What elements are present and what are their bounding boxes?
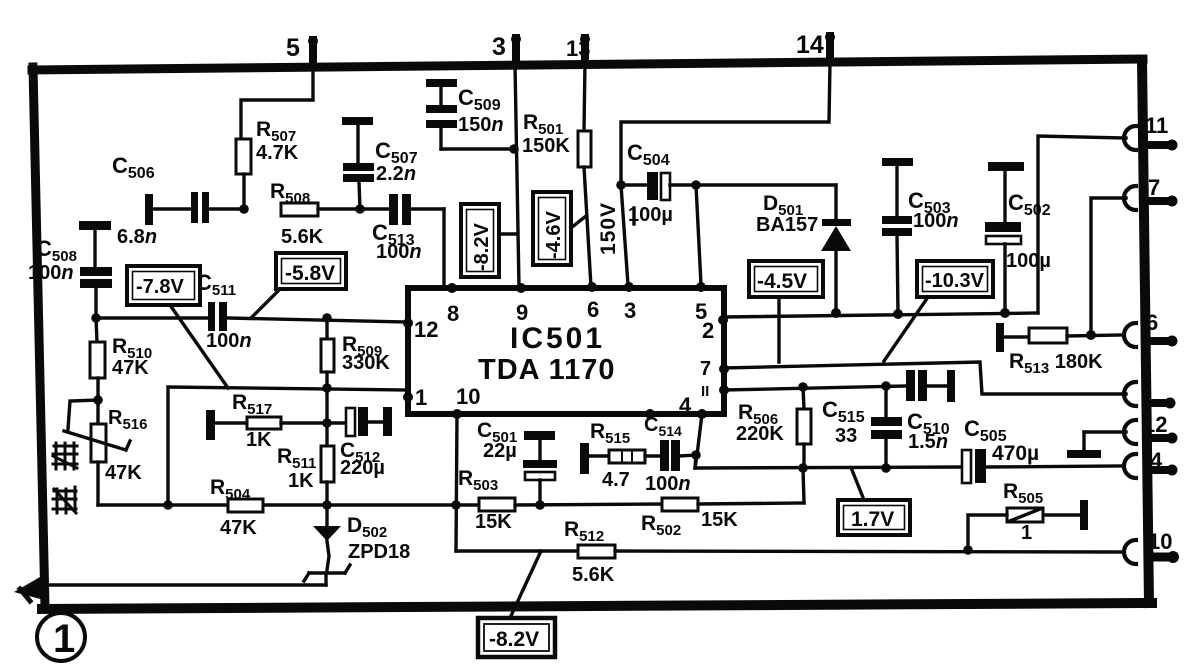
resistor R513 <box>996 323 1122 377</box>
svg-text:3: 3 <box>492 33 506 61</box>
capacitor C511 <box>196 270 252 352</box>
svg-text:15K: 15K <box>475 511 512 533</box>
resistor R515 <box>580 420 645 491</box>
node: junction R507/C506/R508 <box>239 204 249 214</box>
ground (pin 12) <box>1067 432 1101 458</box>
resistor R511 <box>277 388 334 505</box>
svg-text:BA157: BA157 <box>756 214 818 236</box>
svg-text:-8.2V: -8.2V <box>489 628 539 651</box>
capacitor C510 <box>906 370 955 453</box>
svg-text:1K: 1K <box>246 429 272 451</box>
node: C502 on rail <box>1000 308 1010 318</box>
capacitor C513 <box>372 194 444 263</box>
svg-text:ZPD18: ZPD18 <box>348 541 410 563</box>
svg-text:22µ: 22µ <box>483 440 517 462</box>
connector pin 11 <box>1124 113 1178 151</box>
capacitor C514 <box>644 414 696 495</box>
node: C501 on R503 row <box>535 500 545 510</box>
svg-text:-5.8V: -5.8V <box>285 262 335 285</box>
svg-text:1: 1 <box>53 617 75 661</box>
wire: row to IC pin 12 (left part) <box>96 316 208 319</box>
pin 13 (top terminal) <box>566 34 590 62</box>
node: junction pin10 column on R503 row <box>451 500 461 510</box>
wire: outer frame right <box>1142 60 1149 603</box>
pin 3 <box>624 282 634 292</box>
connector pin 4 <box>1124 448 1178 478</box>
voltage label -4.5V <box>749 261 823 362</box>
pin 11 <box>719 385 729 395</box>
connector pin 12 <box>1124 412 1178 444</box>
voltage label -7.8V <box>127 266 228 388</box>
node: C515 bottom <box>881 463 891 473</box>
pin 6 <box>587 282 597 292</box>
pin 5 (top terminal) <box>286 34 318 66</box>
node: R510/R516 junction <box>93 395 103 405</box>
svg-text:12: 12 <box>1143 412 1167 437</box>
wire: C504 left down to IC pin 3 <box>621 185 628 285</box>
capacitor C508 <box>28 221 112 318</box>
node: pin7 wire on R513 <box>1086 330 1096 340</box>
node: R509 bottom on pin1 wire <box>322 383 332 393</box>
svg-text:-7.8V: -7.8V <box>136 276 184 298</box>
svg-text:10: 10 <box>1148 529 1172 554</box>
svg-text:1K: 1K <box>288 470 314 492</box>
svg-text:2: 2 <box>702 318 714 343</box>
wire: C514 junction up to IC pin 4 (already drawn), down link <box>695 455 696 468</box>
svg-text:IC501: IC501 <box>510 322 605 355</box>
resistor R510 <box>90 318 152 400</box>
svg-text:3: 3 <box>624 298 636 323</box>
svg-text:100n: 100n <box>645 473 691 495</box>
svg-text:4: 4 <box>1150 448 1163 473</box>
wire: rail pin2 to pin11 connector wire <box>723 313 1038 317</box>
wire: outer frame left <box>33 67 45 607</box>
node: C515 top <box>881 381 891 391</box>
pin 7 <box>719 364 729 374</box>
svg-text:R513 180K: R513 180K <box>1009 350 1103 377</box>
node: D501 on rail <box>831 308 841 318</box>
wire: pin7 connector wire <box>1091 198 1126 335</box>
wire: pin11 connector wire <box>1038 136 1126 313</box>
voltage label -5.8V <box>252 253 346 317</box>
svg-text:-4.5V: -4.5V <box>757 270 807 293</box>
svg-text:10: 10 <box>456 384 480 409</box>
svg-text:5: 5 <box>286 34 300 62</box>
pin 4 <box>697 409 707 419</box>
svg-text:7: 7 <box>1148 175 1160 200</box>
node: R506 top <box>798 382 808 392</box>
svg-text:47K: 47K <box>105 462 142 484</box>
svg-text:13: 13 <box>566 36 590 61</box>
resistor R502 <box>641 468 804 539</box>
wire: outer frame bottom <box>42 603 1152 609</box>
svg-text:2.2n: 2.2n <box>376 163 416 185</box>
svg-text:4.7K: 4.7K <box>256 142 299 164</box>
svg-text:14: 14 <box>796 31 824 59</box>
diode D501 BA157 <box>756 185 851 313</box>
svg-text:4: 4 <box>679 393 692 418</box>
pin 8 <box>447 283 457 293</box>
node: R506 bottom <box>798 463 808 473</box>
pin 12 <box>403 318 413 328</box>
wire: C513 down to IC pin 8 <box>444 209 452 287</box>
node: C514 right junction <box>691 450 701 460</box>
svg-text:100n: 100n <box>28 262 74 284</box>
capacitor C512 (electrolytic) <box>327 407 392 479</box>
capacitor C506 <box>112 153 244 248</box>
node: C503 on rail <box>893 309 903 319</box>
svg-text:-4.6V: -4.6V <box>543 211 565 259</box>
node: arrow at left frame <box>14 573 47 600</box>
op-amp IC501 TDA1170 (box) <box>403 282 729 419</box>
stray tick mark <box>632 208 635 224</box>
node: unused dot on bottom edge <box>645 409 655 419</box>
wire: IC pin4 down and right row to C505 <box>695 414 962 468</box>
svg-text:47K: 47K <box>112 357 149 379</box>
svg-text:5.6K: 5.6K <box>572 564 615 586</box>
svg-text:220K: 220K <box>736 423 784 445</box>
svg-text:220µ: 220µ <box>340 457 385 479</box>
node: C504 right junction <box>691 180 701 190</box>
wire: L-wire up to IC pin 1 <box>168 387 407 505</box>
pin 3 (top terminal) <box>492 33 521 64</box>
potentiometer R516 (rheostat) <box>64 400 147 505</box>
svg-text:11: 11 <box>1145 113 1168 138</box>
resistor R506 <box>736 387 811 468</box>
connector pin 10 <box>1124 529 1179 564</box>
node: page reference circled 1 <box>37 613 85 661</box>
wire: IC pin7 row to right connector <box>724 362 1126 394</box>
svg-text:-10.3V: -10.3V <box>925 270 985 292</box>
voltage label -4.6V (rotated, near pin 6) <box>533 192 586 265</box>
wire: R504 row <box>98 503 479 506</box>
net label 线性 (linearity, rotated hanzi) <box>53 443 77 513</box>
node: C504 left junction <box>616 180 626 190</box>
node: R517/R511/C512 junction <box>322 418 332 428</box>
resistor R507 <box>236 118 299 209</box>
pin 1 <box>403 392 413 402</box>
pin 5 <box>696 282 706 292</box>
connector pin (unlabeled, to deflection) <box>1124 382 1176 409</box>
wire: C504 right to D501 <box>696 183 836 186</box>
resistor R517 <box>206 391 327 451</box>
svg-text:100n: 100n <box>913 210 959 232</box>
svg-text:TDA 1170: TDA 1170 <box>478 354 616 386</box>
wire: outer frame top <box>32 59 1143 70</box>
svg-text:1.5n: 1.5n <box>908 431 948 453</box>
node: R511 bottom on R504 row <box>322 500 332 510</box>
connector pin 7 <box>1124 175 1178 210</box>
resistor R509 <box>321 318 390 388</box>
wire: R512 row to pin 10 connector <box>456 549 578 552</box>
wire: C504 right down to IC pin 5 <box>696 185 701 285</box>
capacitor C515 <box>822 386 902 468</box>
pin 10 <box>452 409 462 419</box>
capacitor C505 (electrolytic) <box>962 416 1122 483</box>
pin 9 <box>516 283 526 293</box>
node: L-wire on R504 row <box>163 500 173 510</box>
svg-text:100µ: 100µ <box>628 204 673 226</box>
node: junction R508/C507/C513 <box>355 204 365 214</box>
svg-text:100n: 100n <box>206 330 252 352</box>
node: R505 on pin10 row <box>963 545 973 555</box>
svg-text:150K: 150K <box>522 135 570 157</box>
svg-text:12: 12 <box>414 317 438 342</box>
capacitor C504 (electrolytic) <box>621 140 696 226</box>
resistor R505 <box>968 480 1088 550</box>
voltage label -8.2V (rotated, near pin 9) <box>461 204 516 277</box>
voltage label 1.7V <box>838 470 910 535</box>
svg-text:150V: 150V <box>597 202 620 255</box>
svg-text:-8.2V: -8.2V <box>471 223 493 271</box>
capacitor C509 <box>426 79 514 149</box>
svg-text:6: 6 <box>1146 310 1158 335</box>
node: row to pin12 at R509 <box>322 313 332 323</box>
svg-text:15K: 15K <box>701 509 738 531</box>
svg-text:8: 8 <box>447 301 459 326</box>
pin 14 (top terminal) <box>796 31 835 62</box>
wire: IC pin11 row <box>724 386 906 390</box>
svg-text:47K: 47K <box>220 517 257 539</box>
voltage label -10.3V <box>884 261 993 361</box>
connector pin 6 <box>1124 310 1178 347</box>
svg-text:330K: 330K <box>342 352 390 374</box>
zener diode D502 ZPD18 <box>304 505 410 585</box>
resistor R512 <box>564 518 1122 586</box>
svg-text:1: 1 <box>415 385 427 410</box>
svg-text:7: 7 <box>700 358 711 380</box>
node: junction C509 on pin3 wire <box>509 144 519 154</box>
wire: IC pin10 down to rows <box>456 414 457 551</box>
resistor R504 <box>210 476 263 539</box>
svg-text:II: II <box>701 383 709 400</box>
wire: pin5 to R507 <box>241 66 313 139</box>
resistor R508 <box>270 180 389 248</box>
svg-text:1: 1 <box>1021 522 1032 544</box>
svg-text:5.6K: 5.6K <box>281 226 324 248</box>
resistor R501 <box>522 62 591 287</box>
svg-text:6.8n: 6.8n <box>117 226 157 248</box>
wire: D502 to left frame (ground return) <box>40 583 326 586</box>
capacitor C503 <box>882 158 959 314</box>
svg-text:33: 33 <box>835 425 857 447</box>
svg-text:100µ: 100µ <box>1006 250 1051 272</box>
svg-text:150n: 150n <box>458 114 504 136</box>
wire: pin14 to C504 <box>621 62 830 185</box>
svg-text:470µ: 470µ <box>992 442 1039 465</box>
resistor R503 <box>458 467 662 533</box>
svg-text:1.7V: 1.7V <box>851 508 894 531</box>
svg-text:4.7: 4.7 <box>602 469 630 491</box>
pin 2 <box>718 315 728 325</box>
svg-text:100n: 100n <box>376 241 422 263</box>
voltage label -8.2V (bottom) <box>478 551 555 657</box>
node: junction C508/R510 on pin-12 row <box>91 313 101 323</box>
capacitor C502 (electrolytic) <box>985 162 1051 313</box>
wire: row to IC pin 12 (right part) <box>227 318 407 322</box>
svg-text:6: 6 <box>587 297 599 322</box>
wire: pin12 connector to ground <box>1084 430 1126 433</box>
wire: pin3 down to IC pin 9 <box>515 64 519 287</box>
capacitor C501 (electrolytic) <box>477 419 557 505</box>
capacitor C507 <box>342 117 418 209</box>
svg-text:9: 9 <box>516 300 528 325</box>
